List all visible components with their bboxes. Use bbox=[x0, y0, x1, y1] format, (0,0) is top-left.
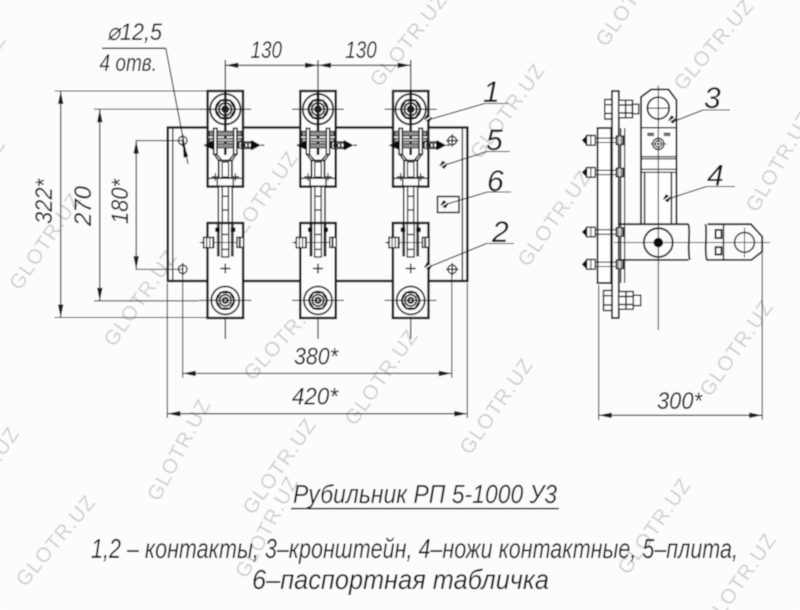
svg-text:1: 1 bbox=[483, 76, 500, 109]
hinge pivot bbox=[644, 228, 673, 257]
hinge standoff lines bbox=[620, 128, 622, 283]
dimension 130 (pole2-pole3) bbox=[318, 37, 411, 68]
knife arm 4 (horizontal, side) bbox=[619, 224, 763, 260]
mounting hole top-left bbox=[178, 134, 187, 147]
arm slots bbox=[716, 230, 722, 238]
plate edge-on bbox=[598, 128, 612, 283]
contact pole 1 (left) bbox=[199, 60, 264, 339]
nameplate 6 bbox=[438, 197, 460, 213]
pads column edge-on bbox=[612, 91, 619, 318]
svg-text:4: 4 bbox=[707, 160, 724, 193]
svg-text:Рубильник РП 5-1000 У3: Рубильник РП 5-1000 У3 bbox=[293, 481, 557, 509]
svg-text:4 отв.: 4 отв. bbox=[100, 50, 158, 77]
dimension 380* bbox=[183, 274, 452, 378]
side bolt 1 bbox=[582, 135, 623, 145]
side bolt 2 bbox=[582, 168, 623, 178]
svg-text:130: 130 bbox=[345, 37, 377, 64]
dimension 420* bbox=[167, 283, 467, 418]
dimension 270 bbox=[94, 109, 199, 301]
bracket 3 (side) bbox=[641, 89, 676, 224]
contact pole 2 (middle) bbox=[292, 60, 357, 339]
dimension 130 (pole1-pole2) bbox=[225, 37, 318, 68]
arm end hole bbox=[735, 233, 755, 253]
side bolt 3 bbox=[582, 227, 623, 237]
mounting hole bottom-left bbox=[178, 263, 187, 276]
side bolt 4 bbox=[582, 259, 623, 269]
svg-text:130: 130 bbox=[251, 37, 283, 64]
plate right flange line bbox=[461, 128, 463, 282]
mounting hole top-right bbox=[446, 134, 458, 147]
plate left flange line bbox=[172, 128, 174, 282]
mounting hole bottom-right bbox=[446, 263, 458, 276]
dimension 180* bbox=[136, 141, 183, 270]
svg-text:6–паспортная табличка: 6–паспортная табличка bbox=[252, 564, 549, 595]
svg-text:322*: 322* bbox=[31, 178, 58, 224]
svg-text:270: 270 bbox=[70, 185, 97, 227]
svg-text:1,2 – контакты, 3–кронштейн, 4: 1,2 – контакты, 3–кронштейн, 4–ножи конт… bbox=[91, 533, 738, 564]
svg-text:180*: 180* bbox=[107, 178, 134, 224]
svg-text:300*: 300* bbox=[657, 388, 703, 415]
dimension 322* bbox=[55, 91, 209, 318]
svg-text:⌀12,5: ⌀12,5 bbox=[107, 19, 163, 46]
svg-text:420*: 420* bbox=[292, 384, 339, 411]
svg-text:380*: 380* bbox=[294, 344, 339, 371]
knife arm verticals bbox=[644, 172, 646, 224]
bottom terminal bolt (side) bbox=[604, 291, 641, 311]
top terminal bolt (side) bbox=[605, 100, 639, 120]
svg-text:6: 6 bbox=[487, 165, 504, 198]
arm centerline bbox=[614, 242, 770, 244]
contact pole 3 (right) bbox=[385, 60, 450, 339]
plate 5 (front view) bbox=[168, 128, 468, 282]
dimension 300* bbox=[599, 253, 763, 420]
leader to hole bbox=[166, 48, 188, 164]
